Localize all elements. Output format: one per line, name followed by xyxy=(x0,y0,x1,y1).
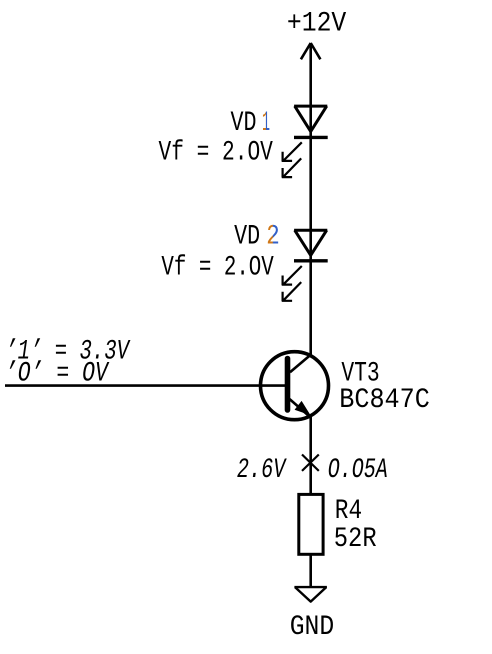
svg-text:VD: VD xyxy=(231,108,257,139)
wire emitter net (transistor to resistor) xyxy=(309,416,312,494)
svg-text:BC847C: BC847C xyxy=(339,385,430,416)
svg-text:VD: VD xyxy=(234,222,260,253)
svg-text:52R: 52R xyxy=(334,524,377,555)
svg-text:Vf = 2.OV: Vf = 2.OV xyxy=(161,253,274,284)
LED VD1 xyxy=(282,106,328,177)
svg-text:+12V: +12V xyxy=(287,8,347,39)
wire resistor to ground xyxy=(309,554,312,587)
LED VD2 xyxy=(282,230,328,301)
svg-text:O.O5A: O.O5A xyxy=(328,455,388,486)
svg-text:Vf = 2.OV: Vf = 2.OV xyxy=(159,138,274,169)
resistor R4 xyxy=(299,494,323,554)
measurement point X xyxy=(302,455,319,471)
svg-text:GND: GND xyxy=(290,612,335,643)
wire collector net (arrow to transistor) xyxy=(309,43,312,355)
svg-text:2.6V: 2.6V xyxy=(237,455,287,486)
ground symbol xyxy=(294,587,327,602)
svg-text:R4: R4 xyxy=(335,496,362,527)
svg-text:2: 2 xyxy=(266,222,280,253)
wire base net xyxy=(5,384,287,387)
power arrow +12V xyxy=(301,43,321,59)
svg-text:1: 1 xyxy=(262,108,270,139)
transistor VT3 xyxy=(261,352,329,420)
emitter arrow xyxy=(296,403,308,414)
